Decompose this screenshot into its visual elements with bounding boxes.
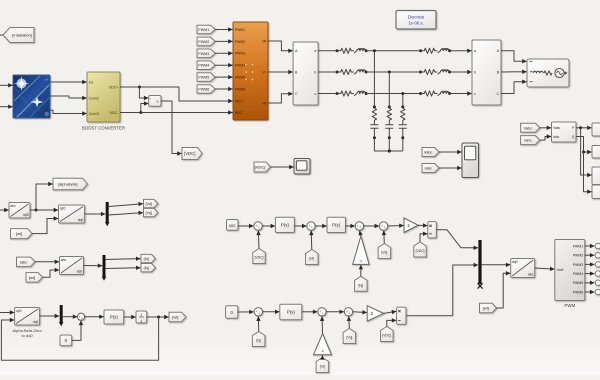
wire <box>439 151 462 153</box>
wire <box>346 225 355 227</box>
wire VDC- rail <box>120 112 233 114</box>
svg-text:dq0: dq0 <box>33 320 39 324</box>
svg-text:+: + <box>359 226 361 230</box>
svg-text:Vref: Vref <box>557 268 565 272</box>
svg-text:PWM1: PWM1 <box>573 244 584 248</box>
PI controller P(s) D2 <box>327 217 346 232</box>
goto tag [Vd] <box>144 199 159 207</box>
wire <box>40 315 60 317</box>
goto tag PWM4 out <box>595 271 600 277</box>
wire <box>439 167 462 169</box>
From tag PWM6 <box>197 85 215 94</box>
From tag [Vq] E <box>343 329 356 344</box>
svg-text:Iabc: Iabc <box>20 259 28 264</box>
node tap <box>373 49 376 52</box>
wire <box>321 317 324 334</box>
svg-text:abc: abc <box>61 258 67 262</box>
wire <box>406 265 478 316</box>
goto tag [Vq] <box>144 208 159 216</box>
divide block D <box>428 222 437 238</box>
svg-text:b: b <box>314 70 316 74</box>
demux A <box>106 202 109 222</box>
From tag [VDC] D1 <box>253 249 265 264</box>
display block Q <box>592 146 600 159</box>
goto tag [Iq] <box>141 264 156 272</box>
wire <box>215 29 233 31</box>
wire <box>32 219 58 234</box>
svg-text:dq0: dq0 <box>512 260 518 264</box>
goto tag PWM1 out <box>595 243 600 249</box>
svg-text:[Iq]: [Iq] <box>359 284 364 288</box>
wire <box>585 254 595 256</box>
wire <box>72 321 81 341</box>
wire <box>85 213 106 215</box>
svg-text:VDC-: VDC- <box>235 111 243 115</box>
svg-text:abc: abc <box>528 273 534 277</box>
wire <box>450 50 472 52</box>
wire <box>310 231 313 250</box>
wire <box>353 311 367 314</box>
series RL branch set1 row1 <box>336 49 339 52</box>
svg-text:Iabc: Iabc <box>425 166 432 171</box>
wire <box>50 81 87 83</box>
From tag [Iq] D <box>355 276 368 291</box>
svg-text:C: C <box>496 92 499 96</box>
sum junction E3 <box>344 308 352 316</box>
svg-text:Vabc: Vabc <box>553 126 561 130</box>
wire <box>263 311 280 313</box>
svg-text:+: + <box>81 316 83 320</box>
three-phase VI measurement block B1 <box>293 42 318 105</box>
svg-text:+: + <box>258 226 260 230</box>
mux output <box>478 240 481 284</box>
wire <box>215 52 233 54</box>
svg-text:a: a <box>474 49 476 53</box>
abc to alpha-beta transform block A1 <box>9 203 30 219</box>
svg-text:VDC+: VDC+ <box>109 85 119 89</box>
wire <box>0 106 13 108</box>
svg-text:vR: vR <box>262 39 267 43</box>
svg-text:αβ0: αβ0 <box>23 213 29 217</box>
node <box>579 126 582 129</box>
svg-text:PWM3: PWM3 <box>573 263 584 267</box>
demux B <box>103 255 106 277</box>
wire <box>141 104 149 113</box>
wire <box>576 137 592 153</box>
PI controller P(s) PLL <box>104 310 124 324</box>
wire <box>482 264 511 266</box>
svg-text:PWM3: PWM3 <box>198 52 209 56</box>
goto tag PWM6 out <box>595 289 600 295</box>
wire <box>315 225 326 227</box>
wire <box>257 231 260 249</box>
svg-text:αβ0: αβ0 <box>16 309 22 313</box>
series RL branch set2 row3 <box>419 92 422 95</box>
goto tag PWM2 out <box>595 252 600 258</box>
svg-text:dq0: dq0 <box>78 218 84 222</box>
boost converter block <box>87 72 120 122</box>
wire <box>497 273 511 308</box>
svg-text:Q: Q <box>572 135 575 139</box>
scope P <box>592 167 600 185</box>
wire <box>268 41 293 51</box>
wire <box>501 51 527 62</box>
wire <box>109 213 143 215</box>
wire <box>326 311 344 313</box>
gain -L block D <box>353 236 369 264</box>
svg-text:to dq0: to dq0 <box>22 333 34 338</box>
wire <box>262 225 275 227</box>
node VDC- junction <box>139 111 142 114</box>
series RL branch set1 row2 <box>336 71 339 74</box>
wire <box>215 64 233 66</box>
svg-text:s: s <box>141 319 143 323</box>
svg-text:[Id]: [Id] <box>310 257 315 261</box>
wire <box>366 71 420 73</box>
node tap <box>401 92 404 95</box>
wire <box>501 82 527 94</box>
svg-text:[Vq]: [Vq] <box>346 336 352 340</box>
sum junction E1 <box>254 308 262 316</box>
svg-text:+: + <box>384 226 386 230</box>
svg-text:[Vd]: [Vd] <box>146 202 153 206</box>
shunt RC branch 2 <box>388 72 390 108</box>
From tag [VDC] E <box>381 327 394 342</box>
inverter bridge block <box>233 22 268 120</box>
From tag Vabc PQ <box>521 123 540 132</box>
svg-text:PWM4: PWM4 <box>235 64 245 68</box>
svg-text:PWM2: PWM2 <box>235 40 245 44</box>
alpha-beta to dq0 transform block A2 <box>59 205 85 223</box>
svg-text:[alphabeta]: [alphabeta] <box>58 182 77 187</box>
wire <box>348 317 351 329</box>
svg-text:PWM6: PWM6 <box>235 87 245 91</box>
From tag [VDC] D2 <box>414 242 426 257</box>
wire <box>318 71 336 73</box>
From tag [wt] output <box>480 303 497 313</box>
wire <box>50 110 87 113</box>
wire <box>388 225 404 228</box>
wire <box>0 209 9 211</box>
From tag Vabc scope <box>422 148 439 157</box>
integrator 1/s <box>136 311 147 323</box>
gain 2 block E <box>367 306 383 321</box>
svg-text:1: 1 <box>140 313 142 317</box>
svg-text:P(s): P(s) <box>110 315 119 320</box>
wire <box>383 231 386 244</box>
divide block E <box>397 307 406 324</box>
wire <box>501 71 527 73</box>
svg-text:Iabc: Iabc <box>524 138 531 143</box>
wire <box>384 311 397 313</box>
node <box>582 151 585 154</box>
series RL branch set1 row3 <box>336 92 339 95</box>
wire <box>294 225 306 227</box>
alpha-beta to dq0 transform block PLL <box>15 308 40 326</box>
wire <box>585 291 595 293</box>
three-phase VI measurement block B2 <box>472 40 501 105</box>
From tag PWM1 <box>197 25 215 34</box>
svg-text:-: - <box>150 102 151 106</box>
wire <box>63 316 77 318</box>
wire <box>387 320 396 326</box>
wire <box>535 268 555 269</box>
svg-text:v: v <box>157 99 159 104</box>
svg-text:VDC-: VDC- <box>110 111 120 115</box>
gain 2 block D <box>404 218 418 233</box>
svg-text:P(s): P(s) <box>287 310 296 315</box>
svg-text:PWM6: PWM6 <box>198 88 209 92</box>
wire <box>0 34 3 36</box>
svg-text:PWM5: PWM5 <box>198 76 209 80</box>
svg-text:[wt]: [wt] <box>172 315 178 320</box>
node tap <box>388 71 391 74</box>
wire <box>585 273 595 275</box>
sum junction D2 <box>307 222 315 230</box>
shunt RC branch 3 <box>402 94 404 109</box>
svg-text:[VDC]: [VDC] <box>255 256 264 260</box>
From tag Iabc scope <box>422 164 439 173</box>
wire <box>161 101 182 154</box>
constant 0 block E <box>226 306 238 319</box>
wire <box>585 282 595 284</box>
sum junction E2 <box>318 308 326 316</box>
svg-text:-L: -L <box>359 259 362 263</box>
svg-text:P(s): P(s) <box>332 223 341 228</box>
wire <box>321 355 323 357</box>
From tag [Id] D <box>306 250 319 265</box>
wire <box>30 209 58 211</box>
voltage measurement block <box>149 96 161 107</box>
svg-text:PWM: PWM <box>564 303 575 308</box>
wire <box>302 311 318 313</box>
node neutral <box>388 149 391 152</box>
svg-text:[VDC]: [VDC] <box>184 151 195 156</box>
wire <box>106 258 141 261</box>
sum junction D3 <box>355 222 363 230</box>
wire <box>147 316 169 318</box>
svg-text:Conn3: Conn3 <box>89 112 99 116</box>
goto tag [VDC] <box>182 148 202 160</box>
wire <box>43 270 60 277</box>
From tag [Irradiation] <box>3 28 34 43</box>
wire <box>238 311 254 313</box>
svg-text:a: a <box>314 49 316 53</box>
svg-text:Vabc: Vabc <box>524 125 533 130</box>
svg-text:[wt]: [wt] <box>483 306 489 311</box>
goto tag PWM5 out <box>595 280 600 286</box>
constant 600 block <box>227 220 239 231</box>
three-phase source block <box>527 59 569 87</box>
wire <box>50 96 87 98</box>
From tag PWM5 <box>197 73 215 82</box>
svg-text:[Vq]: [Vq] <box>146 211 153 215</box>
svg-text:c: c <box>474 92 476 96</box>
wire <box>238 225 253 227</box>
svg-text:Discrete: Discrete <box>408 14 425 19</box>
svg-text:[Vd]: [Vd] <box>381 251 387 255</box>
wire <box>0 312 14 314</box>
svg-text:Iabc: Iabc <box>553 135 560 139</box>
wire VDC+ rail <box>120 87 233 101</box>
PV array block <box>13 75 50 118</box>
svg-text:PWM5: PWM5 <box>573 281 584 285</box>
wire <box>0 84 13 86</box>
svg-text:In1: In1 <box>89 80 94 84</box>
wire <box>366 93 420 95</box>
svg-text:P(s): P(s) <box>281 223 290 228</box>
wire <box>84 265 103 267</box>
wire <box>215 88 233 90</box>
From tag PWM2 <box>197 37 215 46</box>
From tag [Iq] E <box>252 332 265 347</box>
svg-text:+: + <box>258 311 260 315</box>
wire <box>109 204 143 207</box>
svg-text:PWM5: PWM5 <box>235 76 245 80</box>
From tag Iabc <box>17 257 36 267</box>
wire <box>418 224 427 226</box>
node VDC+ junction <box>138 86 141 89</box>
wire <box>36 184 53 210</box>
svg-text:PWM2: PWM2 <box>573 254 584 258</box>
From tag [VDC] display <box>254 162 271 172</box>
svg-text:PWM4: PWM4 <box>573 272 584 276</box>
abc to dq0 transform block B <box>60 257 84 275</box>
svg-text:[VDC]: [VDC] <box>255 165 266 170</box>
wire <box>318 50 336 52</box>
From tag [wt] A <box>11 229 33 239</box>
svg-text:600: 600 <box>229 224 235 228</box>
svg-text:PWM1: PWM1 <box>235 28 245 32</box>
wire feedback loop <box>1 317 158 360</box>
display block P <box>592 123 600 136</box>
svg-text:c: c <box>315 92 317 96</box>
wire <box>585 245 595 247</box>
wire <box>139 87 148 98</box>
svg-text:VDC+: VDC+ <box>235 99 244 103</box>
sum junction D1 <box>254 222 262 230</box>
From tag [Vd] D <box>378 244 391 259</box>
PI controller P(s) E <box>280 304 302 319</box>
svg-text:[VDC]: [VDC] <box>416 249 425 253</box>
svg-text:PWM6: PWM6 <box>573 290 584 294</box>
wire <box>318 93 336 95</box>
svg-text:C: C <box>295 92 298 96</box>
dq0 to abc transform block <box>511 259 535 278</box>
svg-text:αβ0: αβ0 <box>60 207 66 211</box>
wire <box>366 50 420 52</box>
goto tag PWM3 out <box>595 262 600 268</box>
wire <box>436 230 478 248</box>
PWM generator block <box>555 240 585 301</box>
wire <box>215 40 233 42</box>
sum junction PLL <box>77 313 84 320</box>
shunt RC branch 1 <box>373 51 375 108</box>
gain wL block E <box>314 334 332 355</box>
wire <box>576 127 592 129</box>
svg-text:[Irradiation]: [Irradiation] <box>12 33 31 38</box>
scope Vabc/Iabc <box>462 143 479 178</box>
svg-text:[VDC]: [VDC] <box>382 334 391 338</box>
wire <box>364 225 379 227</box>
wire <box>585 263 595 265</box>
wire <box>360 231 361 236</box>
PQ power measurement block <box>552 122 577 142</box>
wire <box>450 93 472 95</box>
svg-text:[Id]: [Id] <box>144 257 149 261</box>
wire <box>540 137 551 141</box>
svg-text:-L: -L <box>321 349 324 353</box>
series RL branch set2 row2 <box>419 71 422 74</box>
svg-text:[Iq]: [Iq] <box>256 339 261 343</box>
svg-text:Alpha-Beta-Zero: Alpha-Beta-Zero <box>12 328 42 333</box>
svg-text:+: + <box>348 311 350 315</box>
svg-text:Vabc: Vabc <box>424 150 433 155</box>
From tag Iabc PQ <box>521 136 540 145</box>
wire <box>450 71 472 73</box>
svg-text:[wt]: [wt] <box>29 275 35 280</box>
wire <box>420 234 427 242</box>
powergui block <box>396 11 436 30</box>
svg-text:PWM4: PWM4 <box>198 64 209 68</box>
node <box>35 209 38 212</box>
wire <box>257 317 259 332</box>
svg-text:+: + <box>322 311 324 315</box>
demux PLL <box>60 305 63 322</box>
svg-text:dq0: dq0 <box>77 270 83 274</box>
sum junction D4 <box>379 222 387 230</box>
wire <box>124 316 136 318</box>
wire <box>268 94 293 103</box>
svg-text:[Id]: [Id] <box>320 365 325 369</box>
wire <box>215 76 233 78</box>
svg-text:PWM2: PWM2 <box>198 40 209 44</box>
wire <box>540 127 551 129</box>
wire <box>581 128 592 175</box>
From tag PWM3 <box>197 49 215 58</box>
goto tag [alphabeta] <box>53 178 88 190</box>
wire neutral bus <box>374 150 402 152</box>
svg-text:abc: abc <box>10 204 16 208</box>
svg-text:1e-06 s.: 1e-06 s. <box>408 21 424 26</box>
From tag [Id] E <box>316 358 329 373</box>
svg-text:BOOST CONVERTER: BOOST CONVERTER <box>82 126 125 131</box>
wire <box>85 316 104 318</box>
svg-text:+: + <box>311 226 313 230</box>
From tag PWM4 <box>197 61 215 70</box>
goto tag [wt] <box>169 312 186 322</box>
scope Q <box>592 185 600 199</box>
svg-text:PWM3: PWM3 <box>235 52 245 56</box>
wire <box>360 265 362 276</box>
wire <box>106 267 141 270</box>
constant 0 block <box>60 335 72 346</box>
wire <box>584 152 592 192</box>
svg-text:[wt]: [wt] <box>16 231 22 236</box>
svg-text:Conn2: Conn2 <box>89 96 99 100</box>
wire <box>271 166 294 168</box>
svg-text:PWM1: PWM1 <box>198 28 209 32</box>
node <box>157 316 160 319</box>
series RL branch set2 row1 <box>419 49 422 52</box>
wire <box>35 261 59 263</box>
From tag [wt] B <box>26 273 43 283</box>
svg-text:b: b <box>474 70 476 74</box>
goto tag [Id] <box>141 254 156 262</box>
wire <box>268 71 293 73</box>
scope VDC <box>294 159 310 175</box>
PI controller P(s) D1 <box>275 217 294 232</box>
